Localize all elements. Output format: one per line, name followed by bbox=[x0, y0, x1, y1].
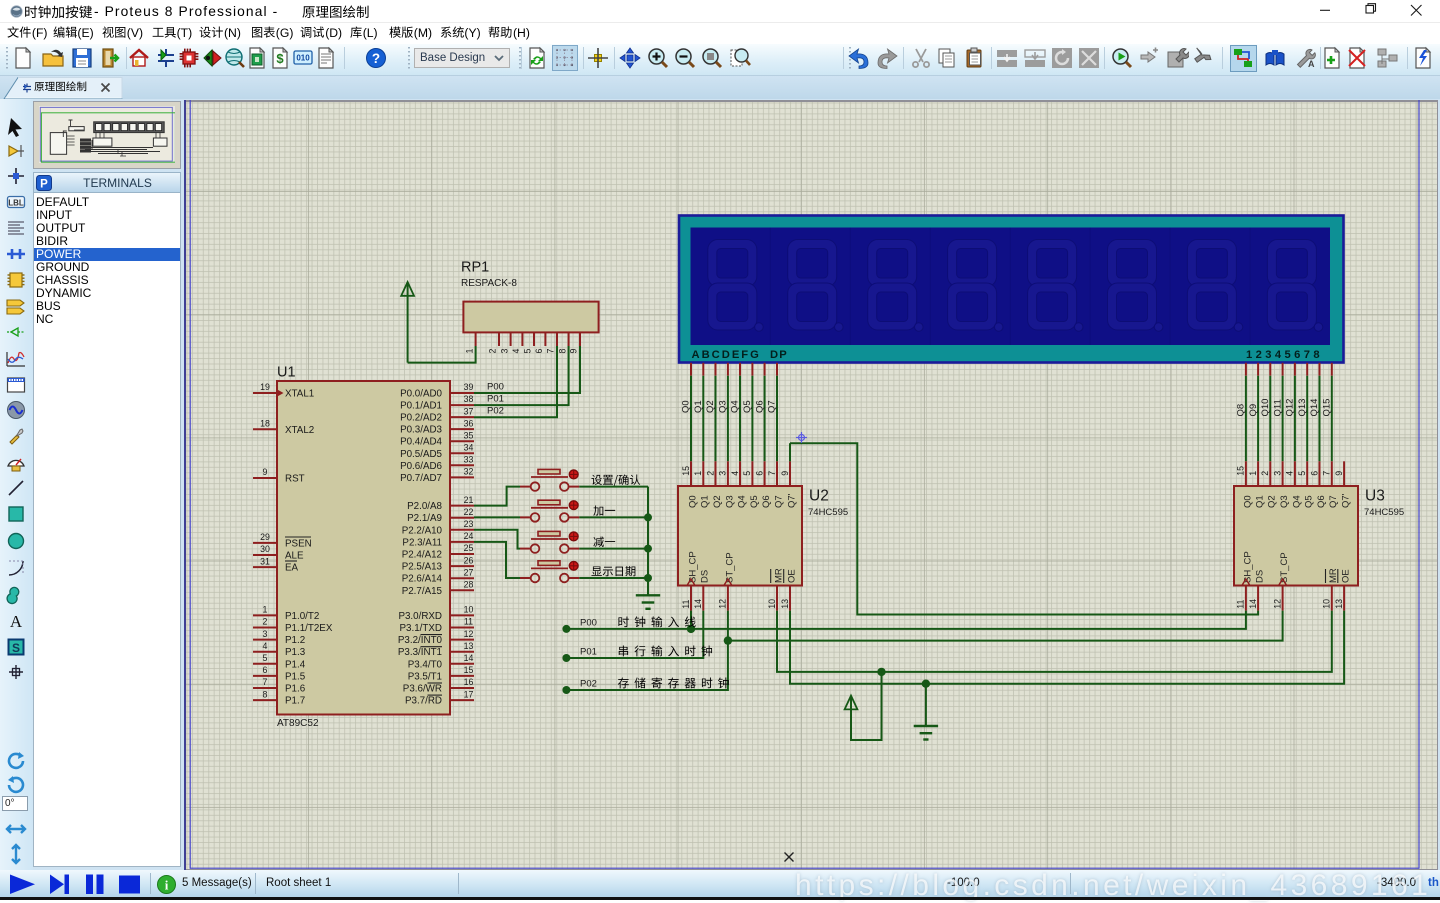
push button (circles at y=578.0) bbox=[531, 574, 540, 583]
svg-text:P: P bbox=[40, 179, 48, 191]
svg-text:6: 6 bbox=[263, 665, 268, 675]
node P00 terminal bbox=[562, 625, 570, 633]
push button (circles at y=486.6) bbox=[531, 482, 540, 491]
svg-text:Q3: Q3 bbox=[718, 400, 729, 413]
svg-text:P02: P02 bbox=[580, 678, 597, 689]
U2 pin 5 (Q5) bbox=[751, 461, 753, 486]
svg-text:21: 21 bbox=[464, 495, 474, 505]
U2 pin 14 (DS) bbox=[702, 586, 704, 611]
svg-text:1: 1 bbox=[1248, 471, 1258, 476]
svg-text:16: 16 bbox=[464, 677, 474, 687]
svg-text:RP1: RP1 bbox=[461, 260, 489, 276]
wire display digit pin 2 to U3 bbox=[1257, 363, 1259, 376]
U1 pin 3 (P1.2) bbox=[253, 639, 277, 641]
svg-text:18: 18 bbox=[260, 419, 270, 429]
svg-text:27: 27 bbox=[464, 567, 474, 577]
wire display pin E to U2 bbox=[739, 363, 741, 376]
microcontroller U1 AT89C52 bbox=[277, 381, 450, 715]
svg-text:EA: EA bbox=[285, 563, 299, 574]
svg-text:14: 14 bbox=[693, 599, 703, 609]
svg-text:15: 15 bbox=[1236, 466, 1246, 476]
U1 pin 30 (ALE) bbox=[253, 554, 277, 556]
svg-text:RESPACK-8: RESPACK-8 bbox=[461, 278, 517, 289]
svg-text:P01: P01 bbox=[487, 394, 504, 405]
wire U1.P2.2 to button3 bbox=[474, 530, 520, 549]
wire display digit pin 5 to U3 bbox=[1294, 363, 1296, 376]
svg-text:P1.5: P1.5 bbox=[285, 671, 306, 682]
svg-text:7: 7 bbox=[263, 677, 268, 687]
svg-text:12345678: 12345678 bbox=[1246, 349, 1323, 361]
svg-text:PSEN: PSEN bbox=[285, 538, 312, 549]
U1 pin 22 (P2.1/A9) bbox=[450, 517, 474, 519]
svg-text:8: 8 bbox=[263, 689, 268, 699]
wire display pin DP to U2 bbox=[776, 363, 778, 376]
svg-text:Q4: Q4 bbox=[736, 495, 747, 508]
svg-text:4: 4 bbox=[730, 471, 740, 476]
power terminal (VCC arrow) bbox=[850, 697, 852, 709]
svg-text:4: 4 bbox=[263, 641, 268, 651]
svg-text:P0.6/AD6: P0.6/AD6 bbox=[400, 461, 442, 472]
U1 pin 16 (P3.6/WR) bbox=[450, 687, 474, 689]
wire P01 U1.P0.1 to RP1 pin8 bbox=[474, 346, 569, 405]
U1 pin 9 (RST) bbox=[253, 477, 277, 479]
svg-text:24: 24 bbox=[464, 531, 474, 541]
svg-text:14: 14 bbox=[464, 653, 474, 663]
svg-text:DS: DS bbox=[1255, 570, 1266, 583]
svg-text:XTAL2: XTAL2 bbox=[285, 425, 314, 436]
svg-text:12: 12 bbox=[718, 599, 728, 609]
U2 pin 9 (Q7') bbox=[789, 461, 791, 486]
svg-text:P2.6/A14: P2.6/A14 bbox=[402, 574, 443, 585]
svg-text:Q13: Q13 bbox=[1297, 399, 1308, 417]
svg-text:P1.6: P1.6 bbox=[285, 684, 306, 695]
svg-text:39: 39 bbox=[464, 382, 474, 392]
svg-text:Q10: Q10 bbox=[1260, 399, 1271, 417]
svg-text:Q0: Q0 bbox=[1242, 495, 1253, 508]
svg-text:Q7: Q7 bbox=[1328, 495, 1339, 508]
wire display digit pin 3 to U3 bbox=[1269, 363, 1271, 376]
svg-text:14: 14 bbox=[1248, 599, 1258, 609]
RP1 pin 2 bbox=[498, 332, 500, 346]
svg-text:9: 9 bbox=[569, 349, 579, 354]
svg-text:ST_CP: ST_CP bbox=[1279, 552, 1290, 583]
U1 pin 19 (XTAL1) bbox=[253, 392, 277, 394]
svg-text:4: 4 bbox=[511, 349, 521, 354]
U1 pin 7 (P1.6) bbox=[253, 687, 277, 689]
svg-text:3: 3 bbox=[499, 349, 509, 354]
U1 pin 32 (P0.7/AD7) bbox=[450, 476, 474, 478]
svg-text:26: 26 bbox=[464, 555, 474, 565]
svg-text:Q2: Q2 bbox=[1267, 495, 1278, 508]
svg-text:Q3: Q3 bbox=[724, 495, 735, 508]
svg-text:2: 2 bbox=[488, 349, 498, 354]
svg-text:13: 13 bbox=[780, 599, 790, 609]
svg-text:15: 15 bbox=[464, 665, 474, 675]
svg-text:38: 38 bbox=[464, 394, 474, 404]
RP1 pin 5 bbox=[533, 332, 535, 346]
wire display digit pin 6 to U3 bbox=[1306, 363, 1308, 376]
svg-text:7: 7 bbox=[1322, 471, 1332, 476]
svg-text:25: 25 bbox=[464, 543, 474, 553]
svg-text:6: 6 bbox=[534, 349, 544, 354]
wire display pin D to U2 bbox=[727, 363, 729, 376]
svg-text:5: 5 bbox=[523, 349, 533, 354]
svg-text:Q0: Q0 bbox=[681, 400, 692, 413]
wire P00 U1.P0.0 to RP1 pin9 bbox=[474, 346, 580, 393]
U3 pin 2 (Q2) bbox=[1269, 461, 1271, 486]
svg-text:OE: OE bbox=[1341, 569, 1352, 583]
RP1 pin 1 bbox=[475, 332, 477, 346]
svg-text:P0.1/AD1: P0.1/AD1 bbox=[400, 401, 442, 412]
RP1 pin 3 bbox=[510, 332, 512, 346]
svg-text:34: 34 bbox=[464, 442, 474, 452]
wire U2.SH_CP drop bbox=[690, 611, 692, 629]
U2 pin 7 (Q7) bbox=[776, 461, 778, 486]
U3 pin 10 (MR) bbox=[1331, 586, 1333, 611]
node P02 terminal bbox=[562, 686, 570, 694]
svg-text:P1.1/T2EX: P1.1/T2EX bbox=[285, 623, 333, 634]
svg-text:Q7': Q7' bbox=[786, 493, 797, 508]
svg-text:S: S bbox=[12, 641, 20, 655]
wire U1.P2.1 to button2 bbox=[474, 516, 520, 518]
svg-text:3: 3 bbox=[1272, 471, 1282, 476]
svg-text:LBL: LBL bbox=[8, 199, 24, 208]
junction btn4 bbox=[644, 574, 652, 582]
svg-text:13: 13 bbox=[464, 641, 474, 651]
U1 pin 10 (P3.0/RXD) bbox=[450, 614, 474, 616]
svg-text:Q4: Q4 bbox=[730, 400, 741, 413]
svg-text:Q8: Q8 bbox=[1236, 404, 1247, 417]
wire display pin C to U2 bbox=[715, 363, 717, 376]
svg-text:?: ? bbox=[372, 51, 380, 66]
svg-text:Q3: Q3 bbox=[1279, 495, 1290, 508]
U3 pin 9 (Q7') bbox=[1343, 461, 1345, 486]
U1 pin 29 (PSEN) bbox=[253, 542, 277, 544]
U1 pin 25 (P2.4/A12) bbox=[450, 553, 474, 555]
svg-text:MR: MR bbox=[773, 568, 784, 583]
svg-text:Q15: Q15 bbox=[1322, 399, 1333, 417]
svg-text:i: i bbox=[165, 878, 169, 893]
svg-text:P3.4/T0: P3.4/T0 bbox=[408, 659, 443, 670]
svg-text:P3.6/WR: P3.6/WR bbox=[403, 684, 442, 695]
svg-text:P2.0/A8: P2.0/A8 bbox=[407, 501, 442, 512]
U1 pin 4 (P1.3) bbox=[253, 651, 277, 653]
svg-text:P3.0/RXD: P3.0/RXD bbox=[398, 611, 442, 622]
svg-text:23: 23 bbox=[464, 519, 474, 529]
wire P01 to U2.DS bbox=[566, 611, 703, 658]
svg-text:P3.5/T1: P3.5/T1 bbox=[408, 671, 442, 682]
U3 pin 7 (Q7) bbox=[1331, 461, 1333, 486]
svg-text:Q1: Q1 bbox=[693, 400, 704, 413]
U3 pin 12 (ST_CP) bbox=[1282, 586, 1284, 611]
svg-text:SH_CP: SH_CP bbox=[687, 551, 698, 583]
U1 pin 27 (P2.6/A14) bbox=[450, 577, 474, 579]
svg-text:OE: OE bbox=[786, 569, 797, 583]
wire display digit pin 7 to U3 bbox=[1319, 363, 1321, 376]
svg-text:ALE: ALE bbox=[285, 551, 304, 562]
wire buttons common to ground bbox=[579, 486, 648, 488]
U3 pin 15 (Q0) bbox=[1245, 461, 1247, 486]
U3 pin 5 (Q5) bbox=[1306, 461, 1308, 486]
svg-text:Q9: Q9 bbox=[1248, 404, 1259, 417]
svg-text:U2: U2 bbox=[809, 488, 829, 505]
svg-text:5: 5 bbox=[742, 471, 752, 476]
U1 pin 33 (P0.6/AD6) bbox=[450, 464, 474, 466]
svg-text:P00: P00 bbox=[580, 617, 597, 628]
U1 pin 1 (P1.0/T2) bbox=[253, 614, 277, 616]
shift register U3 74HC595 bbox=[1234, 486, 1358, 586]
svg-text:$: $ bbox=[276, 51, 284, 66]
svg-text:Q2: Q2 bbox=[712, 495, 723, 508]
U1 pin 6 (P1.5) bbox=[253, 675, 277, 677]
svg-text:Q5: Q5 bbox=[749, 495, 760, 508]
U2 pin 6 (Q6) bbox=[764, 461, 766, 486]
svg-text:P1.3: P1.3 bbox=[285, 647, 306, 658]
svg-text:P2.5/A13: P2.5/A13 bbox=[402, 562, 443, 573]
wire P02 U1.P0.2 to RP1 pin7 bbox=[474, 346, 557, 417]
svg-text:P02: P02 bbox=[487, 406, 504, 417]
svg-text:P0.2/AD2: P0.2/AD2 bbox=[400, 413, 442, 424]
wire ST_CP net line to U3.ST_CP bbox=[728, 611, 1283, 641]
U2 pin 4 (Q4) bbox=[739, 461, 741, 486]
svg-text:AT89C52: AT89C52 bbox=[277, 718, 319, 729]
svg-text:11: 11 bbox=[681, 600, 691, 609]
svg-text:Q6: Q6 bbox=[754, 400, 765, 413]
svg-text:10: 10 bbox=[464, 605, 474, 615]
svg-text:Q0: Q0 bbox=[687, 495, 698, 508]
U3 pin 4 (Q4) bbox=[1294, 461, 1296, 486]
svg-text:33: 33 bbox=[464, 455, 474, 465]
svg-text:17: 17 bbox=[464, 689, 474, 699]
svg-text:35: 35 bbox=[464, 430, 474, 440]
svg-text:12: 12 bbox=[1272, 599, 1282, 609]
svg-text:XTAL1: XTAL1 bbox=[285, 389, 314, 400]
junction MR/power bbox=[877, 668, 885, 676]
svg-text:Q1: Q1 bbox=[1255, 495, 1266, 508]
svg-text:74HC595: 74HC595 bbox=[1364, 507, 1404, 518]
svg-text:U1: U1 bbox=[277, 365, 296, 381]
svg-text:37: 37 bbox=[464, 406, 474, 416]
wire display digit pin 8 to U3 bbox=[1331, 363, 1333, 376]
junction btn2 bbox=[644, 513, 652, 521]
U2 pin 2 (Q2) bbox=[715, 461, 717, 486]
U1 pin 21 (P2.0/A8) bbox=[450, 505, 474, 507]
svg-text:Q7: Q7 bbox=[767, 400, 778, 413]
svg-text:Q7: Q7 bbox=[773, 495, 784, 508]
RP1 pin 6 bbox=[544, 332, 546, 346]
svg-text:19: 19 bbox=[260, 382, 270, 392]
svg-text:Q4: Q4 bbox=[1291, 495, 1302, 508]
svg-text:32: 32 bbox=[464, 467, 474, 477]
svg-text:P2.3/A11: P2.3/A11 bbox=[402, 537, 442, 548]
wire RP1 pin1 to VCC bbox=[407, 296, 409, 363]
U2 pin 11 (SH_CP) bbox=[690, 586, 692, 611]
svg-text:31: 31 bbox=[260, 556, 270, 566]
svg-text:4: 4 bbox=[1285, 471, 1295, 476]
U1 pin 18 (XTAL2) bbox=[253, 428, 277, 430]
U1 pin 31 (EA) bbox=[253, 566, 277, 568]
wire to ground bbox=[925, 684, 927, 726]
U1 pin 5 (P1.4) bbox=[253, 663, 277, 665]
U1 pin 13 (P3.3/INT1) bbox=[450, 651, 474, 653]
node P01 terminal bbox=[562, 654, 570, 662]
U1 pin 11 (P3.1/TXD) bbox=[450, 627, 474, 629]
U1 pin 15 (P3.5/T1) bbox=[450, 675, 474, 677]
svg-text:Q5: Q5 bbox=[742, 400, 753, 413]
push button (circles at y=517.4) bbox=[531, 513, 540, 522]
U1 pin 12 (P3.2/INT0) bbox=[450, 639, 474, 641]
RP1 pin 7 bbox=[556, 332, 558, 346]
svg-text:P0.0/AD0: P0.0/AD0 bbox=[400, 389, 442, 400]
svg-text:1: 1 bbox=[693, 471, 703, 476]
svg-text:6: 6 bbox=[1309, 471, 1319, 476]
U1 pin 24 (P2.3/A11) bbox=[450, 541, 474, 543]
svg-text:Q12: Q12 bbox=[1285, 399, 1296, 417]
svg-text:2: 2 bbox=[263, 617, 268, 627]
svg-text:P1.7: P1.7 bbox=[285, 696, 305, 707]
svg-text:RST: RST bbox=[285, 474, 305, 485]
svg-text:2: 2 bbox=[705, 471, 715, 476]
svg-text:P0.5/AD5: P0.5/AD5 bbox=[400, 449, 442, 460]
svg-text:Q5: Q5 bbox=[1304, 495, 1315, 508]
svg-text:A: A bbox=[1308, 59, 1315, 69]
ground symbol bbox=[914, 725, 938, 727]
svg-text:10: 10 bbox=[1322, 599, 1332, 609]
U1 pin 26 (P2.5/A13) bbox=[450, 565, 474, 567]
svg-text:7: 7 bbox=[767, 471, 777, 476]
svg-text:P2.2/A10: P2.2/A10 bbox=[402, 525, 443, 536]
U2 pin 10 (MR) bbox=[776, 586, 778, 611]
wire display pin G to U2 bbox=[764, 363, 766, 376]
svg-text:8: 8 bbox=[557, 349, 567, 354]
svg-text:10: 10 bbox=[767, 599, 777, 609]
U3 pin 6 (Q6) bbox=[1319, 461, 1321, 486]
wire display pin B to U2 bbox=[702, 363, 704, 376]
svg-text:P1.4: P1.4 bbox=[285, 659, 306, 670]
svg-text:P1.0/T2: P1.0/T2 bbox=[285, 611, 319, 622]
svg-text:1: 1 bbox=[464, 349, 474, 354]
junction OE/ground bbox=[922, 680, 930, 688]
svg-text:1: 1 bbox=[263, 605, 268, 615]
svg-text:Q2: Q2 bbox=[705, 400, 716, 413]
svg-text:Q11: Q11 bbox=[1272, 399, 1283, 416]
U1 pin 14 (P3.4/T0) bbox=[450, 663, 474, 665]
shift register U2 74HC595 bbox=[678, 486, 802, 586]
svg-text:P2.7/A15: P2.7/A15 bbox=[402, 586, 443, 597]
svg-text:30: 30 bbox=[260, 544, 270, 554]
svg-text:3: 3 bbox=[718, 471, 728, 476]
svg-text:9: 9 bbox=[780, 471, 790, 476]
junction ST_CP net bbox=[724, 636, 732, 644]
U3 pin 1 (Q1) bbox=[1257, 461, 1259, 486]
svg-text:DS: DS bbox=[700, 570, 711, 583]
svg-text:P3.2/INT0: P3.2/INT0 bbox=[398, 635, 443, 646]
U1 pin 35 (P0.4/AD4) bbox=[450, 440, 474, 442]
U1 pin 8 (P1.7) bbox=[253, 699, 277, 701]
svg-text:P2.1/A9: P2.1/A9 bbox=[407, 513, 442, 524]
svg-text:P00: P00 bbox=[487, 381, 504, 392]
svg-text:010: 010 bbox=[296, 54, 310, 63]
svg-text:P3.3/INT1: P3.3/INT1 bbox=[398, 647, 442, 658]
svg-text:9: 9 bbox=[1334, 471, 1344, 476]
U2 pin 13 (OE) bbox=[789, 586, 791, 611]
U3 pin 14 (DS) bbox=[1257, 586, 1259, 611]
wire P02 to U2.ST_CP bbox=[566, 611, 728, 690]
svg-text:P01: P01 bbox=[580, 646, 597, 657]
svg-text:6: 6 bbox=[754, 471, 764, 476]
RP1 pin 9 bbox=[579, 332, 581, 346]
wire display digit pin 1 to U3 bbox=[1245, 363, 1247, 376]
junction on P00 at U2.SH_CP bbox=[687, 625, 695, 633]
wire display pin F to U2 bbox=[751, 363, 753, 376]
wire MR net (VCC) bbox=[777, 611, 1332, 672]
svg-text:ABCDEFG: ABCDEFG bbox=[692, 349, 761, 361]
U2 pin 3 (Q3) bbox=[727, 461, 729, 486]
svg-text:P0.3/AD3: P0.3/AD3 bbox=[400, 425, 442, 436]
U3 pin 3 (Q3) bbox=[1282, 461, 1284, 486]
svg-text:74HC595: 74HC595 bbox=[808, 507, 848, 518]
wire display digit pin 4 to U3 bbox=[1282, 363, 1284, 376]
U2 pin 12 (ST_CP) bbox=[727, 586, 729, 611]
resistor pack RP1 RESPACK-8 bbox=[463, 302, 598, 333]
ground symbol (buttons) bbox=[636, 594, 660, 596]
wire U1.P2.3 to button4 bbox=[474, 542, 520, 578]
svg-text:2: 2 bbox=[1260, 471, 1270, 476]
svg-text:9: 9 bbox=[263, 467, 268, 477]
svg-text:P3.7/RD: P3.7/RD bbox=[405, 696, 442, 707]
svg-text:11: 11 bbox=[1236, 600, 1246, 609]
origin marker bbox=[796, 432, 807, 443]
svg-text:36: 36 bbox=[464, 418, 474, 428]
U1 pin 2 (P1.1/T2EX) bbox=[253, 627, 277, 629]
wire to power arrow bbox=[851, 672, 882, 740]
U1 pin 17 (P3.7/RD) bbox=[450, 699, 474, 701]
U1 pin 36 (P0.3/AD3) bbox=[450, 428, 474, 430]
U3 pin 11 (SH_CP) bbox=[1245, 586, 1247, 611]
U1 pin 34 (P0.5/AD5) bbox=[450, 452, 474, 454]
wire U1.P2.0 to button1 bbox=[474, 487, 520, 506]
svg-text:3: 3 bbox=[263, 629, 268, 639]
svg-text:5: 5 bbox=[263, 653, 268, 663]
RP1 pin 8 bbox=[568, 332, 570, 346]
svg-text:DP: DP bbox=[770, 349, 788, 361]
svg-text:U3: U3 bbox=[1365, 488, 1385, 505]
svg-text:15: 15 bbox=[681, 466, 691, 476]
svg-text:11: 11 bbox=[464, 617, 473, 627]
svg-text:SH_CP: SH_CP bbox=[1242, 551, 1253, 583]
svg-text:12: 12 bbox=[464, 629, 474, 639]
svg-text:5: 5 bbox=[1297, 471, 1307, 476]
RP1 pin 4 bbox=[521, 332, 523, 346]
junction btn3 bbox=[644, 545, 652, 553]
power terminal near RP1 bbox=[407, 284, 409, 296]
wire P00 net line to U3.SH_CP bbox=[566, 611, 1246, 629]
U1 pin 39 (P0.0/AD0) bbox=[450, 392, 474, 394]
svg-text:22: 22 bbox=[464, 507, 474, 517]
U1 pin 23 (P2.2/A10) bbox=[450, 529, 474, 531]
svg-text:Q14: Q14 bbox=[1309, 399, 1320, 417]
svg-text:7: 7 bbox=[546, 349, 556, 354]
svg-text:Q6: Q6 bbox=[761, 495, 772, 508]
svg-text:ST_CP: ST_CP bbox=[724, 552, 735, 583]
U1 pin 38 (P0.1/AD1) bbox=[450, 404, 474, 406]
svg-text:29: 29 bbox=[260, 532, 270, 542]
U3 pin 13 (OE) bbox=[1343, 586, 1345, 611]
wire display pin A to U2 bbox=[690, 363, 692, 376]
U1 pin 28 (P2.7/A15) bbox=[450, 589, 474, 591]
mouse cursor mark bbox=[785, 853, 794, 862]
svg-text:P3.1/TXD: P3.1/TXD bbox=[400, 623, 442, 634]
